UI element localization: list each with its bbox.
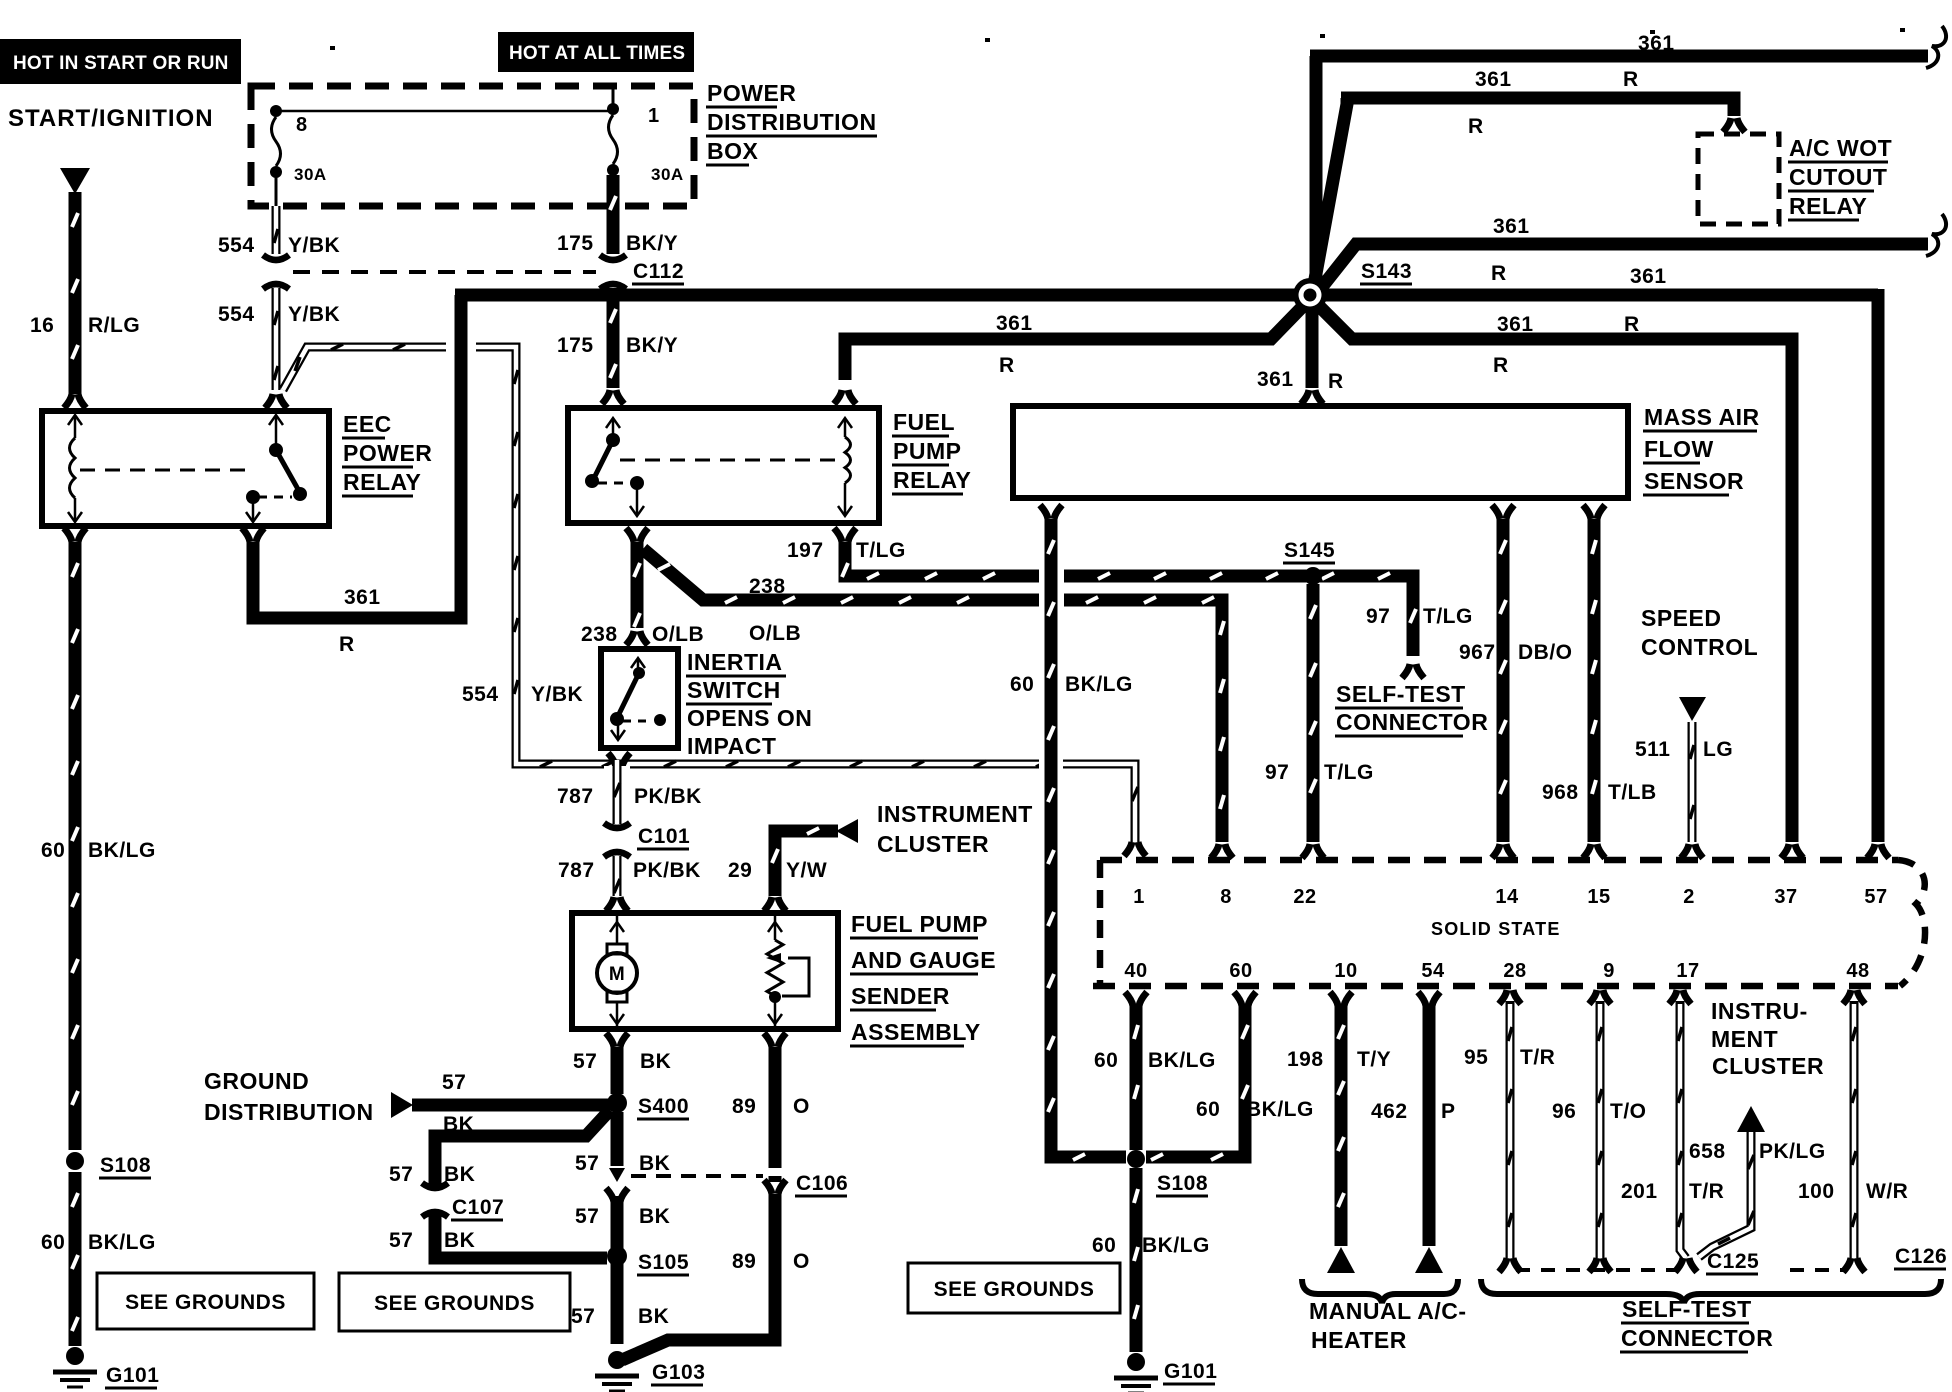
svg-text:O/LB: O/LB xyxy=(749,622,801,645)
power distribution box (dashed) xyxy=(251,86,694,206)
off-page triangle START/IGNITION xyxy=(60,168,90,194)
svg-text:8: 8 xyxy=(296,114,308,136)
wire 238 O/LB vertical FPR to inertia switch (striped) xyxy=(634,542,640,628)
svg-text:60: 60 xyxy=(1094,1049,1118,1072)
label 511 LG xyxy=(1635,738,1733,761)
dashed line C112 xyxy=(293,270,596,274)
svg-text:C125: C125 xyxy=(1707,1250,1759,1273)
svg-text:MASS AIR: MASS AIR xyxy=(1644,404,1760,430)
svg-text:48: 48 xyxy=(1846,960,1869,982)
wire 95 T/R (thin) xyxy=(1508,1004,1512,1258)
svg-text:FUEL PUMP: FUEL PUMP xyxy=(851,911,988,937)
wire 967 DB/O (striped) xyxy=(1500,519,1506,842)
wire 57 BK S400 to C106 xyxy=(611,1112,624,1166)
wire 554 Y/BK from fuse to C112 xyxy=(274,206,278,254)
svg-text:968: 968 xyxy=(1542,781,1579,804)
svg-text:10: 10 xyxy=(1334,960,1357,982)
svg-text:554: 554 xyxy=(462,683,499,706)
label 361 R fifth-right xyxy=(1493,313,1640,377)
svg-text:554: 554 xyxy=(218,303,255,326)
svg-text:EEC: EEC xyxy=(343,411,392,437)
fork 95 end xyxy=(1499,1258,1521,1272)
fork pin2 xyxy=(1681,844,1703,858)
svg-text:SWITCH: SWITCH xyxy=(687,677,781,703)
wire 361 top to right edge xyxy=(1310,50,1928,63)
wire 97 T/LG S145 to pin 22 (striped) xyxy=(1310,584,1316,842)
svg-text:SEE GROUNDS: SEE GROUNDS xyxy=(125,1291,286,1314)
svg-text:BK/LG: BK/LG xyxy=(1065,673,1133,696)
svg-text:89: 89 xyxy=(732,1250,756,1273)
fork pin40 below xyxy=(1125,992,1147,1006)
scan specks top edge xyxy=(330,28,1905,50)
splice S145 xyxy=(1304,567,1322,585)
inertia switch box xyxy=(601,649,678,748)
see grounds box 3 xyxy=(908,1263,1120,1313)
label GROUND DISTRIBUTION xyxy=(204,1068,374,1125)
label 462 P xyxy=(1371,1100,1456,1123)
svg-text:SELF-TEST: SELF-TEST xyxy=(1336,681,1466,707)
splice S108 left xyxy=(66,1152,151,1178)
svg-text:175: 175 xyxy=(557,334,594,357)
svg-text:P: P xyxy=(1441,1100,1456,1123)
label FUEL PUMP AND GAUGE SENDER ASSEMBLY xyxy=(850,911,996,1046)
svg-text:S145: S145 xyxy=(1284,539,1335,562)
wire 60 BK/LG pin60 to S108 (striped) xyxy=(1146,1004,1248,1160)
label 57 BK bottom xyxy=(571,1305,669,1328)
relay box fuel pump relay xyxy=(568,408,879,523)
fuel pump relay coil xyxy=(838,418,852,516)
label S145 xyxy=(1283,539,1335,563)
fuse 8 30A xyxy=(270,105,327,206)
svg-text:BOX: BOX xyxy=(707,138,759,164)
arrow up 658 PK/LG xyxy=(1737,1106,1765,1132)
label 60 BK/LG pin40 xyxy=(1094,1049,1216,1072)
arrow up end of 198 wire xyxy=(1327,1247,1355,1273)
fuel pump relay switch xyxy=(585,418,644,516)
fuse 1 30A xyxy=(607,86,684,184)
fork pin22 xyxy=(1302,844,1324,858)
solid state bottom pin numbers xyxy=(1124,960,1869,982)
svg-text:361: 361 xyxy=(1630,265,1667,288)
fork below FPR switch pin xyxy=(626,528,648,542)
label 60 BK/LG pin60 xyxy=(1196,1098,1314,1121)
label 198 T/Y xyxy=(1287,1048,1391,1071)
label 97 T/LG stub xyxy=(1366,605,1473,628)
wire 57 BK C106 to S105 xyxy=(611,1196,624,1344)
svg-text:361: 361 xyxy=(1257,368,1294,391)
fork below FPR coil pin xyxy=(834,528,856,542)
svg-text:57: 57 xyxy=(1864,886,1887,908)
fork pin1 xyxy=(1124,842,1146,856)
label START/IGNITION xyxy=(8,105,214,132)
fork C106 on 89 O wire xyxy=(764,1176,786,1194)
svg-text:CONNECTOR: CONNECTOR xyxy=(1621,1325,1773,1351)
svg-text:554: 554 xyxy=(218,234,255,257)
wire 361 R second (to A/C WOT relay) xyxy=(1313,98,1734,290)
splice S105 xyxy=(607,1246,689,1275)
fork pin10 below xyxy=(1330,992,1352,1006)
svg-text:HOT IN START OR RUN: HOT IN START OR RUN xyxy=(13,53,229,74)
svg-text:DISTRIBUTION: DISTRIBUTION xyxy=(707,109,877,135)
label 787 PK/BK upper xyxy=(557,785,702,808)
svg-text:CONNECTOR: CONNECTOR xyxy=(1336,709,1488,735)
svg-text:HEATER: HEATER xyxy=(1311,1327,1407,1353)
wire 29 Y/W xyxy=(772,828,838,896)
label 175 BK/Y upper xyxy=(557,232,678,255)
fork pin17 below xyxy=(1669,990,1691,1005)
fuel pump motor xyxy=(597,916,637,1026)
svg-text:57: 57 xyxy=(389,1163,413,1186)
junction S143 ring xyxy=(1293,278,1327,312)
label 60 BK/LG lower left xyxy=(41,1231,156,1254)
label C106 xyxy=(795,1172,848,1196)
svg-text:O: O xyxy=(793,1250,810,1273)
fork into MAF top pin xyxy=(1301,390,1323,404)
label 57 BK grounddist xyxy=(442,1071,474,1136)
fork below MAF pin 60 xyxy=(1040,505,1062,519)
label 238 O/LB horizontal xyxy=(749,575,801,645)
solid state module dashed box xyxy=(1093,860,1925,986)
svg-text:POWER: POWER xyxy=(343,440,432,466)
label 201 T/R xyxy=(1621,1180,1724,1203)
label SELF-TEST CONNECTOR upper xyxy=(1335,681,1488,736)
svg-text:INERTIA: INERTIA xyxy=(687,649,783,675)
label 60 BK/LG near MAF xyxy=(1010,673,1133,696)
wire 201 T/R (thin) xyxy=(1678,1004,1686,1258)
A/C WOT cutout relay box (dashed) xyxy=(1698,134,1779,224)
svg-text:BK: BK xyxy=(444,1163,475,1186)
fork below EEC switch pin xyxy=(242,528,264,542)
svg-text:361: 361 xyxy=(344,586,381,609)
svg-text:SEE GROUNDS: SEE GROUNDS xyxy=(934,1278,1095,1301)
svg-text:22: 22 xyxy=(1293,886,1316,908)
label 60 BK/LG bottom xyxy=(1092,1234,1210,1257)
fork into inertia switch xyxy=(626,631,648,645)
svg-text:37: 37 xyxy=(1774,886,1797,908)
label 361 R fifth-left xyxy=(996,312,1033,377)
label 361 R second xyxy=(1468,68,1639,138)
svg-text:MENT: MENT xyxy=(1711,1026,1778,1052)
svg-text:361: 361 xyxy=(1497,313,1534,336)
wire 361 R fifth right branch (to pin 37) xyxy=(1315,302,1792,842)
fork pin60 below xyxy=(1234,992,1256,1006)
svg-text:FLOW: FLOW xyxy=(1644,436,1714,462)
svg-text:361: 361 xyxy=(1475,68,1512,91)
svg-text:R/LG: R/LG xyxy=(88,314,140,337)
svg-text:9: 9 xyxy=(1603,960,1615,982)
svg-text:238: 238 xyxy=(581,623,618,646)
svg-text:29: 29 xyxy=(728,859,752,882)
svg-text:787: 787 xyxy=(557,785,594,808)
wire 16 R/LG left vertical (striped) xyxy=(72,192,78,394)
svg-text:57: 57 xyxy=(571,1305,595,1328)
svg-text:1: 1 xyxy=(648,105,660,127)
svg-text:361: 361 xyxy=(996,312,1033,335)
svg-text:40: 40 xyxy=(1124,960,1147,982)
svg-text:96: 96 xyxy=(1552,1100,1576,1123)
label 100 W/R xyxy=(1798,1180,1908,1203)
inertia switch internals xyxy=(610,658,666,740)
svg-text:197: 197 xyxy=(787,539,824,562)
svg-text:R: R xyxy=(339,633,355,656)
wire 89 O lower xyxy=(622,1194,775,1360)
svg-text:BK: BK xyxy=(640,1050,671,1073)
wire 787 PK/BK C101 to fuel pump (thin) xyxy=(614,856,620,896)
svg-text:RELAY: RELAY xyxy=(1789,193,1867,219)
svg-text:INSTRUMENT: INSTRUMENT xyxy=(877,801,1033,827)
wire 57 BK ground distribution xyxy=(412,1099,610,1112)
splice S108 center xyxy=(1127,1150,1208,1196)
label 361 R at MAF drop xyxy=(1257,368,1344,393)
label 197 T/LG xyxy=(787,539,906,562)
svg-text:T/R: T/R xyxy=(1689,1180,1724,1203)
brace self-test group xyxy=(1481,1279,1941,1303)
fork 96 end xyxy=(1589,1258,1611,1272)
label box HOT IN START OR RUN xyxy=(0,39,241,84)
svg-text:C126: C126 xyxy=(1895,1245,1947,1268)
fork into A/C WOT relay xyxy=(1723,118,1745,132)
svg-text:CUTOUT: CUTOUT xyxy=(1789,164,1887,190)
connector C101 xyxy=(604,823,630,857)
svg-text:R: R xyxy=(1491,262,1507,285)
label 554 Y/BK upper xyxy=(218,234,340,257)
svg-text:T/LG: T/LG xyxy=(1324,761,1374,784)
fork below fuel pump right xyxy=(764,1033,786,1047)
svg-text:238: 238 xyxy=(749,575,786,598)
connector C112 right half xyxy=(600,255,626,289)
wire 96 T/O (thin) xyxy=(1598,1004,1602,1258)
svg-text:R: R xyxy=(1468,115,1484,138)
svg-text:30A: 30A xyxy=(294,165,327,184)
svg-text:361: 361 xyxy=(1638,32,1675,55)
label C126 xyxy=(1894,1245,1947,1269)
svg-text:BK/LG: BK/LG xyxy=(1148,1049,1216,1072)
label 89 O upper xyxy=(732,1095,810,1118)
label INSTRU-MENT CLUSTER right xyxy=(1711,998,1824,1079)
svg-text:SPEED: SPEED xyxy=(1641,605,1721,631)
svg-text:RELAY: RELAY xyxy=(893,467,971,493)
connector C107 xyxy=(422,1183,504,1220)
label EEC POWER RELAY xyxy=(342,411,432,496)
svg-text:BK/LG: BK/LG xyxy=(1246,1098,1314,1121)
fork pin14 xyxy=(1492,844,1514,858)
label 89 O lower xyxy=(732,1250,810,1273)
fuel gauge sender resistor xyxy=(766,916,809,1026)
svg-text:57: 57 xyxy=(573,1050,597,1073)
svg-text:57: 57 xyxy=(575,1205,599,1228)
label MASS AIR FLOW SENSOR xyxy=(1643,404,1760,495)
wire 462 P (solid) xyxy=(1423,1004,1436,1246)
svg-text:15: 15 xyxy=(1587,886,1610,908)
wire 89 O upper xyxy=(769,1047,782,1168)
svg-text:START/IGNITION: START/IGNITION xyxy=(8,105,214,132)
svg-text:C101: C101 xyxy=(638,825,690,848)
wire 60 BK/LG S108 to G101 (striped) xyxy=(1134,1168,1138,1352)
svg-text:BK/Y: BK/Y xyxy=(626,232,678,255)
svg-text:G103: G103 xyxy=(652,1361,705,1384)
fork 100 end xyxy=(1843,1258,1865,1272)
fork below fuel pump left xyxy=(606,1033,628,1047)
svg-text:17: 17 xyxy=(1676,960,1699,982)
svg-text:S108: S108 xyxy=(100,1154,151,1177)
svg-text:8: 8 xyxy=(1220,886,1232,908)
label 96 T/O xyxy=(1552,1100,1647,1123)
label C101 xyxy=(637,825,690,849)
label 97 T/LG lower xyxy=(1265,761,1374,784)
connector C106 arrow+fork on BK wire xyxy=(606,1168,628,1202)
label POWER DISTRIBUTION BOX xyxy=(706,80,877,165)
fork into fuel pump top-left xyxy=(606,897,628,911)
fuel pump relay internal dashed line xyxy=(620,459,838,462)
svg-text:16: 16 xyxy=(30,314,54,337)
svg-text:PUMP: PUMP xyxy=(893,438,961,464)
see grounds box 2 xyxy=(339,1273,570,1331)
wire 197 T/LG from FPR coil to S145 and stub (striped) xyxy=(842,542,1416,656)
svg-text:GROUND: GROUND xyxy=(204,1068,309,1094)
svg-text:S108: S108 xyxy=(1157,1172,1208,1195)
brace manual A/C group xyxy=(1302,1279,1458,1303)
svg-text:R: R xyxy=(999,354,1015,377)
svg-text:W/R: W/R xyxy=(1866,1180,1908,1203)
wire 658 PK/LG (thin) xyxy=(1699,1132,1754,1257)
svg-text:Y/W: Y/W xyxy=(786,859,827,882)
svg-text:Y/BK: Y/BK xyxy=(288,303,340,326)
svg-text:Y/BK: Y/BK xyxy=(288,234,340,257)
solid state top pin numbers xyxy=(1133,886,1887,908)
fuel pump and gauge sender assembly box xyxy=(572,913,838,1029)
label C125 xyxy=(1706,1250,1759,1274)
fork pin9 below xyxy=(1589,990,1611,1005)
svg-text:967: 967 xyxy=(1459,641,1496,664)
label S143 / R / 361 xyxy=(1360,260,1667,288)
svg-text:SENSOR: SENSOR xyxy=(1644,468,1744,494)
svg-text:DB/O: DB/O xyxy=(1518,641,1573,664)
wire 238 O/LB diagonal+horizontal to pin 8 (striped) xyxy=(643,549,1224,842)
svg-text:S400: S400 xyxy=(638,1095,689,1118)
fork C125 end xyxy=(1675,1258,1697,1272)
fork pin28 below xyxy=(1499,990,1521,1005)
curl at right end of top 361 wire xyxy=(1926,26,1946,68)
svg-text:R: R xyxy=(1624,313,1640,336)
wire 175 BK/Y C112 to fuel pump relay (striped) xyxy=(610,288,616,388)
label 787 PK/BK lower xyxy=(558,859,701,882)
svg-text:CONTROL: CONTROL xyxy=(1641,634,1758,660)
label 57 BK below C107 xyxy=(389,1229,475,1252)
label 16 R/LG xyxy=(30,314,140,337)
wire 554 Y/BK from C112 to EEC relay xyxy=(274,288,278,390)
fork pin48 below xyxy=(1843,990,1865,1005)
wire 60 BK/LG pin40 to S108 (striped) xyxy=(1134,1004,1138,1150)
svg-text:C106: C106 xyxy=(796,1172,848,1195)
svg-text:R: R xyxy=(1328,370,1344,393)
wire 554 Y/BK branch diagonal+horizontal y343 (thin) xyxy=(283,344,1138,842)
svg-text:28: 28 xyxy=(1503,960,1526,982)
svg-text:BK/LG: BK/LG xyxy=(1142,1234,1210,1257)
svg-text:O/LB: O/LB xyxy=(652,623,704,646)
svg-text:60: 60 xyxy=(1010,673,1034,696)
label 658 PK/LG xyxy=(1689,1140,1826,1163)
svg-text:BK: BK xyxy=(639,1205,670,1228)
wire 361 R down to solid-state pin 57 xyxy=(1872,289,1885,842)
svg-text:BK: BK xyxy=(444,1229,475,1252)
fork pin15 xyxy=(1583,844,1605,858)
svg-text:OPENS ON: OPENS ON xyxy=(687,705,812,731)
label 95 T/R xyxy=(1464,1046,1555,1069)
svg-text:1: 1 xyxy=(1133,886,1145,908)
wire 361 third to right edge xyxy=(1318,244,1928,292)
label 57 BK below C106 xyxy=(575,1205,670,1228)
svg-text:R: R xyxy=(1623,68,1639,91)
svg-text:BK: BK xyxy=(638,1305,669,1328)
label 60 BK/LG left xyxy=(41,839,156,862)
svg-text:14: 14 xyxy=(1495,886,1519,908)
ground G101 left xyxy=(53,1347,159,1388)
svg-text:SELF-TEST: SELF-TEST xyxy=(1622,1296,1752,1322)
svg-text:G101: G101 xyxy=(106,1364,159,1387)
svg-text:T/R: T/R xyxy=(1520,1046,1555,1069)
wire 57 BK fuel pump to S400 xyxy=(611,1047,624,1094)
label 968 T/LB xyxy=(1542,781,1657,804)
svg-text:IMPACT: IMPACT xyxy=(687,733,776,759)
EEC relay switch xyxy=(246,415,307,522)
svg-text:175: 175 xyxy=(557,232,594,255)
svg-text:CLUSTER: CLUSTER xyxy=(877,831,989,857)
arrow to instrument cluster (left-pointing) xyxy=(836,819,858,843)
svg-text:787: 787 xyxy=(558,859,595,882)
svg-text:S143: S143 xyxy=(1361,260,1412,283)
wire 361 R junction down to MAF xyxy=(1306,300,1319,388)
svg-text:A/C WOT: A/C WOT xyxy=(1789,135,1892,161)
svg-text:95: 95 xyxy=(1464,1046,1488,1069)
svg-text:T/LB: T/LB xyxy=(1608,781,1657,804)
wire 60 BK/LG MAF down to S108 (striped) xyxy=(1048,519,1126,1160)
svg-text:54: 54 xyxy=(1421,960,1445,982)
svg-text:361: 361 xyxy=(1493,215,1530,238)
svg-text:511: 511 xyxy=(1635,738,1670,761)
wire 361 vertical junction to top wire xyxy=(1310,56,1323,288)
svg-text:C112: C112 xyxy=(633,260,684,283)
label FUEL PUMP RELAY xyxy=(892,409,971,494)
svg-text:T/LG: T/LG xyxy=(856,539,906,562)
wire 968 T/LB (striped) xyxy=(1592,519,1596,842)
svg-text:60: 60 xyxy=(1229,960,1252,982)
see grounds box 1 xyxy=(97,1273,314,1329)
arrow ground distribution (right-pointing) xyxy=(391,1092,413,1118)
svg-text:97: 97 xyxy=(1265,761,1289,784)
svg-text:HOT AT ALL TIMES: HOT AT ALL TIMES xyxy=(509,43,685,64)
svg-text:MANUAL A/C-: MANUAL A/C- xyxy=(1309,1298,1467,1324)
svg-text:Y/BK: Y/BK xyxy=(531,683,583,706)
svg-text:89: 89 xyxy=(732,1095,756,1118)
label 238 O/LB vertical xyxy=(581,623,704,646)
fork pin54 below xyxy=(1418,992,1440,1006)
svg-text:G101: G101 xyxy=(1164,1360,1217,1383)
svg-text:BK/LG: BK/LG xyxy=(88,1231,156,1254)
svg-text:60: 60 xyxy=(41,839,65,862)
svg-text:RELAY: RELAY xyxy=(343,469,421,495)
svg-text:57: 57 xyxy=(389,1229,413,1252)
fork below MAF pin 968 xyxy=(1583,505,1605,519)
label SPEED CONTROL xyxy=(1641,605,1758,660)
svg-text:60: 60 xyxy=(1092,1234,1116,1257)
label 175 BK/Y lower xyxy=(557,334,678,357)
EEC relay internal dashed line xyxy=(80,469,247,472)
svg-text:97: 97 xyxy=(1366,605,1390,628)
fork into fuel pump top-right xyxy=(764,897,786,911)
label 57 BK mid xyxy=(575,1152,670,1175)
fork into fuel pump relay right pin xyxy=(834,390,856,404)
svg-text:POWER: POWER xyxy=(707,80,796,106)
